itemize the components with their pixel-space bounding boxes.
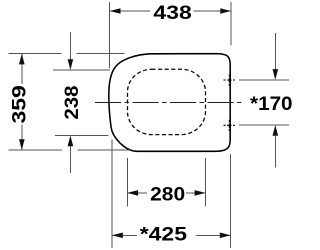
dim 359 bottom extension line (9, 149, 63, 151)
dim *425 left extension line (111, 140, 113, 249)
dim 280 dimension line (127, 192, 147, 194)
dim 238 top extension line (53, 69, 110, 71)
dim 359 dimension line (21, 54, 23, 84)
dim 280 left extension line (126, 158, 128, 206)
dim *170 bottom extension line (239, 124, 289, 126)
centerline (dash-dot axis) (95, 102, 243, 104)
dim *425 right arrow (220, 233, 231, 239)
dim *170 top extension line (239, 79, 289, 81)
dim 359 top extension line (9, 53, 62, 55)
dim *170 top arrow (outside, pointing down) (274, 33, 276, 70)
dim *425 left arrow (112, 233, 123, 239)
dim *170 bottom arrow (outside, pointing up) (274, 136, 276, 168)
seat outer outline (109, 54, 230, 152)
dim 238 bottom extension line (55, 135, 109, 137)
dim 280 right arrow (195, 190, 206, 196)
dim 438 left arrow (110, 8, 121, 14)
svg-text:*170: *170 (250, 93, 293, 115)
dim *425 dimension line (112, 234, 137, 236)
svg-text:438: 438 (153, 2, 191, 24)
dim 438 right arrow (220, 8, 231, 14)
dim 238 top arrow (outside, pointing down) (69, 32, 71, 60)
dim 280 right extension line (204, 158, 206, 206)
dim 438 right extension line (230, 2, 232, 46)
svg-text:359: 359 (8, 85, 30, 124)
svg-text:280: 280 (150, 184, 185, 206)
dim *425 right extension line (230, 154, 232, 248)
dim 438 dimension line (110, 10, 150, 12)
dim 438 left extension line (109, 2, 111, 68)
dim 359 down arrow (19, 139, 25, 150)
dim 238 bottom arrow (outside, pointing up) (69, 146, 71, 173)
svg-text:238: 238 (61, 85, 83, 119)
svg-text:*425: *425 (140, 224, 187, 246)
dim 359 up arrow (19, 54, 25, 65)
hinge hole cross bottom (224, 120, 236, 131)
dim 280 left arrow (127, 190, 138, 196)
hinge hole cross top (224, 75, 236, 86)
seat opening (inner dashed ring) (128, 69, 206, 134)
